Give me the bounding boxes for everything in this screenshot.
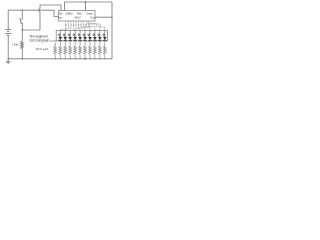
resistor R4	[64, 46, 67, 59]
LED D4	[78, 31, 82, 42]
resistor R5	[69, 46, 72, 59]
svg-text:Carry: Carry	[86, 11, 93, 15]
output 2 wire	[69, 21, 72, 31]
resistor R7	[79, 46, 82, 59]
node A: switch / resistor / clk junction	[22, 29, 23, 30]
LED D1	[63, 31, 67, 42]
output 7 wire	[84, 21, 95, 31]
output 8 wire	[86, 21, 100, 31]
output 4 wire	[76, 21, 80, 31]
top rail wire (battery + to Vcc pin)	[8, 10, 58, 16]
output pin digits 0-9	[65, 24, 90, 27]
resistor R10	[94, 46, 97, 59]
bargraph package outline	[56, 31, 107, 42]
LED D5 cathode wire	[84, 41, 86, 46]
svg-text:ClkEn: ClkEn	[65, 11, 73, 15]
output 9 wire	[89, 21, 105, 31]
battery B1	[6, 10, 11, 59]
output 1 wire	[65, 21, 68, 31]
LED D2	[68, 31, 72, 42]
resistor R12	[103, 46, 106, 59]
LED D0	[58, 31, 62, 42]
wire node A to Clk pin with hop over +V rail	[22, 5, 61, 30]
output 6 wire	[81, 21, 90, 31]
svg-text:Gnd: Gnd	[90, 17, 95, 20]
LED D6	[88, 31, 92, 42]
LED D5	[83, 31, 87, 42]
svg-text:Clk: Clk	[59, 11, 64, 15]
resistor R8	[84, 46, 87, 59]
resistor R2 (leftmost, below box corner)	[54, 43, 57, 60]
ground rail wire (bottom)	[8, 58, 112, 60]
Gnd pin wire to right rail	[95, 16, 112, 18]
pushbutton S1	[20, 10, 23, 30]
resistor R3	[59, 46, 62, 59]
LED D3	[73, 31, 77, 42]
LED D7 cathode wire	[94, 41, 96, 46]
LED D6 cathode wire	[89, 41, 91, 46]
junction node at switch top	[22, 10, 23, 11]
resistor R11	[98, 46, 101, 59]
output 5 wire	[79, 21, 86, 31]
resistor R6	[74, 46, 77, 59]
LED D8 cathode wire	[99, 41, 101, 46]
output 0 wire	[60, 21, 66, 31]
LED D1 cathode wire	[64, 41, 66, 46]
LED D7	[93, 31, 97, 42]
bargraph label arrow	[50, 40, 56, 41]
resistor R9	[89, 46, 92, 59]
ClkEn/Rst ground rail above IC	[65, 1, 113, 10]
output 3 wire	[73, 21, 75, 31]
ground symbol	[6, 59, 10, 64]
right rail wire	[111, 2, 113, 59]
LED D0 cathode wire	[59, 41, 61, 46]
LED D8	[98, 31, 102, 42]
svg-text:1 MΩ: 1 MΩ	[12, 42, 19, 46]
LED D9	[103, 31, 107, 42]
svg-text:4017: 4017	[75, 16, 82, 20]
bargraph label text	[29, 35, 49, 43]
LED D2 cathode wire	[69, 41, 71, 46]
LED D9 cathode wire	[104, 41, 106, 46]
IC U1 4017 box	[58, 11, 95, 22]
LED D4 cathode wire	[79, 41, 81, 46]
resistor R1	[21, 30, 24, 59]
LED D3 cathode wire	[74, 41, 76, 46]
svg-text:470 Ω each: 470 Ω each	[35, 48, 48, 51]
svg-text:LED bargraph: LED bargraph	[29, 38, 49, 42]
